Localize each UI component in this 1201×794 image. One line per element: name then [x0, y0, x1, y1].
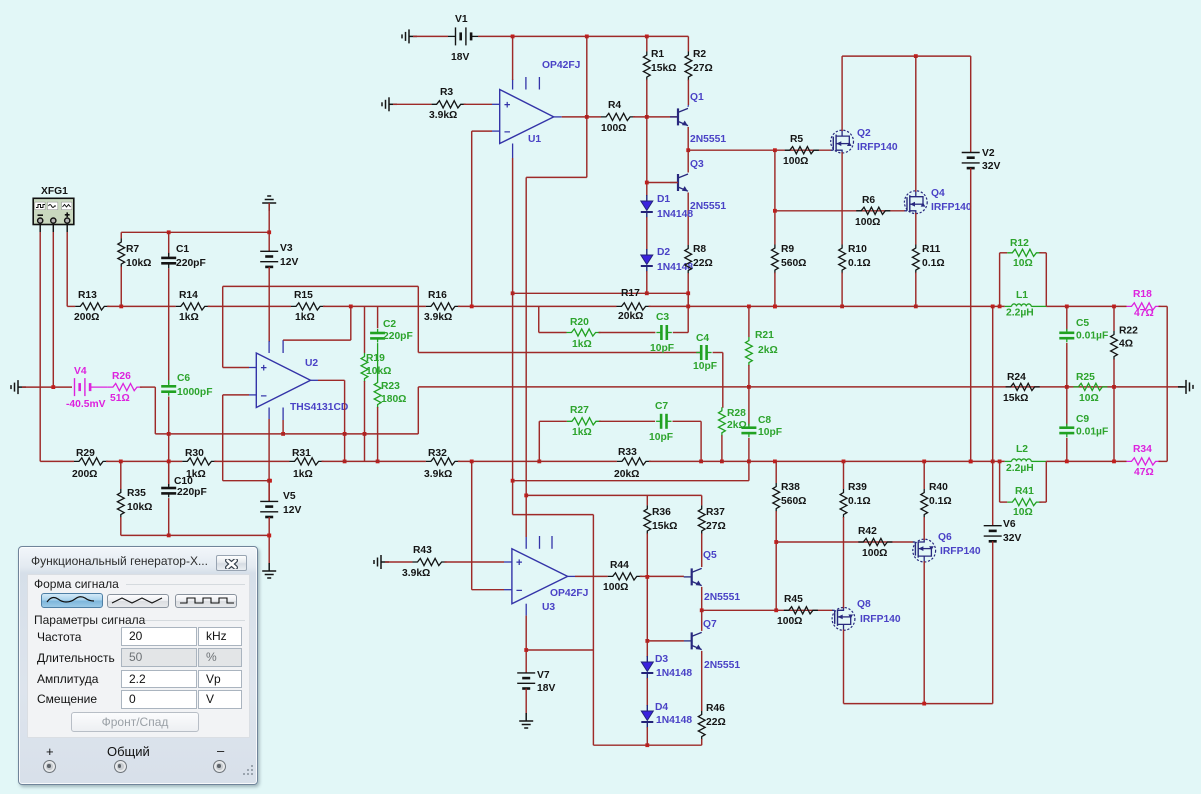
wire XFG plus stub	[66, 223, 68, 232]
resistor	[912, 245, 919, 274]
wire	[513, 292, 689, 294]
svg-text:3.9kΩ: 3.9kΩ	[424, 469, 452, 480]
junction	[537, 460, 541, 464]
transistor Q3 2N5551	[670, 174, 688, 191]
svg-text:V2: V2	[982, 148, 995, 159]
svg-text:2N5551: 2N5551	[690, 134, 726, 145]
svg-text:R13: R13	[78, 290, 97, 301]
battery V3 12V	[260, 251, 278, 267]
wire	[1045, 253, 1047, 307]
wire C4 down to R28	[722, 353, 724, 408]
svg-text:1N4148: 1N4148	[657, 209, 693, 220]
resistor	[685, 52, 692, 81]
battery V1 18V	[456, 27, 472, 45]
svg-text:D2: D2	[657, 247, 670, 258]
svg-text:12V: 12V	[280, 257, 298, 268]
svg-text:1kΩ: 1kΩ	[295, 312, 315, 323]
wire branch down to R9	[774, 150, 776, 244]
wire	[1039, 252, 1046, 254]
wire R19 bottom	[364, 381, 366, 461]
wire	[471, 35, 478, 37]
svg-text:R22: R22	[1119, 326, 1138, 337]
svg-text:IRFP140: IRFP140	[931, 202, 972, 213]
resistor R33 20k	[617, 458, 651, 465]
svg-text:OP42FJ: OP42FJ	[542, 60, 581, 71]
wire	[1159, 460, 1168, 462]
wire gnd to V3	[268, 203, 270, 251]
resistor	[117, 489, 124, 518]
svg-text:100Ω: 100Ω	[862, 548, 887, 559]
junction	[167, 432, 171, 436]
junction	[998, 305, 1002, 309]
junction R35	[119, 460, 123, 464]
svg-text:R18: R18	[1133, 289, 1152, 300]
wire	[168, 461, 170, 486]
wire	[923, 461, 925, 489]
svg-text:10pF: 10pF	[693, 361, 717, 372]
wire XFG minus down	[39, 232, 41, 461]
wire	[1031, 460, 1046, 462]
svg-text:2kΩ: 2kΩ	[758, 345, 778, 356]
wire U2 - input	[223, 394, 249, 396]
resistor	[1006, 383, 1040, 390]
svg-text:IRFP140: IRFP140	[857, 142, 898, 153]
resistor	[746, 337, 753, 366]
wire R22 bottom	[1113, 359, 1115, 387]
svg-text:0.1Ω: 0.1Ω	[929, 496, 952, 507]
svg-text:V4: V4	[74, 366, 87, 377]
ground below V7	[519, 713, 533, 728]
wire U2 pin2 up	[350, 306, 352, 340]
wire	[168, 232, 170, 256]
svg-text:U2: U2	[305, 358, 318, 369]
svg-text:-40.5mV: -40.5mV	[66, 399, 106, 410]
svg-text:XFG1: XFG1	[41, 186, 68, 197]
wire	[646, 495, 648, 505]
junction push-pull node lower	[700, 608, 704, 612]
wire U3 V+ pin top	[525, 495, 527, 537]
svg-text:1kΩ: 1kΩ	[293, 469, 313, 480]
svg-text:0.1Ω: 0.1Ω	[848, 258, 871, 269]
wire XFG common stub	[52, 223, 54, 232]
svg-text:R16: R16	[428, 290, 447, 301]
wire V3 to U2 V+	[268, 267, 270, 342]
resize grip	[243, 763, 254, 781]
wire U3 - input	[472, 589, 504, 591]
junction	[511, 479, 515, 483]
resistor R32 3.9k	[426, 458, 460, 465]
ground above V3	[262, 196, 276, 211]
svg-text:10kΩ: 10kΩ	[126, 258, 151, 269]
wire D2 to -rail line	[646, 271, 648, 293]
dialog title bar	[31, 554, 208, 568]
wire	[208, 305, 291, 307]
junction	[922, 460, 926, 464]
wire	[999, 461, 1001, 502]
svg-text:Q2: Q2	[857, 128, 871, 139]
instrument XFG1 function generator icon	[33, 198, 74, 224]
svg-text:OP42FJ: OP42FJ	[550, 588, 589, 599]
svg-text:2.2µH: 2.2µH	[1006, 463, 1034, 474]
junction	[167, 230, 171, 234]
junction C10	[167, 460, 171, 464]
wire U1 feedback vertical	[471, 131, 473, 306]
diode D3 1N4148	[641, 656, 653, 679]
wire long V- vertical	[512, 158, 514, 515]
resistor	[840, 489, 847, 518]
junction U1 feedback	[470, 305, 474, 309]
wire	[120, 461, 122, 489]
wire	[702, 609, 833, 611]
svg-text:3.9kΩ: 3.9kΩ	[424, 312, 452, 323]
wire	[842, 55, 971, 57]
junction R22 top	[1112, 305, 1116, 309]
wire	[970, 56, 972, 152]
wire Q1 emitter down	[687, 127, 689, 150]
dialog body panel	[27, 574, 250, 738]
junction	[363, 432, 367, 436]
op-amp U2 THS4131CD	[249, 340, 318, 420]
field row amplitude	[37, 672, 98, 686]
svg-text:20kΩ: 20kΩ	[618, 311, 643, 322]
junction V7 top	[524, 648, 528, 652]
svg-text:D1: D1	[657, 194, 670, 205]
op-amp U1 OP42FJ	[492, 77, 562, 158]
wire	[214, 460, 289, 462]
svg-text:R38: R38	[781, 482, 800, 493]
junction	[991, 460, 995, 464]
svg-text:Q5: Q5	[703, 550, 717, 561]
wire Q3 base	[647, 182, 678, 184]
capacitor C4 10pF	[696, 345, 711, 360]
svg-text:+: +	[516, 557, 522, 569]
svg-text:V7: V7	[537, 670, 550, 681]
mosfet Q8 IRFP140	[832, 608, 855, 631]
diode D2 1N4148	[641, 249, 653, 272]
wire XFG common down	[52, 232, 54, 387]
junction	[267, 479, 271, 483]
svg-text:100Ω: 100Ω	[601, 123, 626, 134]
svg-text:V6: V6	[1003, 519, 1016, 530]
svg-text:R2: R2	[693, 49, 706, 60]
svg-text:Q8: Q8	[857, 599, 871, 610]
terminal minus label	[217, 743, 224, 758]
wire line A to L1	[649, 305, 1005, 307]
svg-text:10Ω: 10Ω	[1079, 393, 1099, 404]
svg-text:15kΩ: 15kΩ	[651, 63, 676, 74]
ground right	[1178, 380, 1193, 394]
resistor	[773, 483, 780, 512]
wire U1 out to R4	[562, 116, 601, 118]
svg-text:R29: R29	[76, 448, 95, 459]
svg-text:C8: C8	[758, 415, 771, 426]
wire	[915, 213, 917, 245]
svg-text:15kΩ: 15kΩ	[652, 521, 677, 532]
junction	[645, 639, 649, 643]
wire	[377, 306, 379, 328]
wire	[323, 305, 426, 307]
junction	[720, 460, 724, 464]
wire	[713, 352, 723, 354]
resistor	[719, 407, 726, 436]
svg-text:C7: C7	[655, 401, 668, 412]
svg-text:R42: R42	[858, 526, 877, 537]
svg-text:R23: R23	[381, 381, 400, 392]
mosfet Q6 IRFP140	[913, 539, 936, 562]
resistor	[921, 489, 928, 518]
resistor R26 51	[108, 384, 142, 391]
svg-text:IRFP140: IRFP140	[860, 614, 901, 625]
svg-text:15kΩ: 15kΩ	[1003, 393, 1028, 404]
svg-text:R6: R6	[862, 195, 875, 206]
wire	[593, 744, 701, 746]
svg-text:R43: R43	[413, 545, 432, 556]
svg-text:C4: C4	[696, 333, 709, 344]
svg-text:R3: R3	[440, 87, 453, 98]
wire V6 bottom	[992, 541, 994, 703]
wire U1 V+ pin	[512, 36, 514, 80]
resistor R42 100	[858, 538, 892, 545]
wire R22 node down	[1113, 387, 1115, 462]
wire R39 to Q8 source	[843, 517, 845, 608]
svg-text:200Ω: 200Ω	[74, 312, 99, 323]
wire	[458, 460, 617, 462]
junction to R9/R6 branch	[773, 148, 777, 152]
svg-text:R11: R11	[922, 244, 941, 255]
svg-text:R20: R20	[570, 317, 589, 328]
junction U3 feedback	[470, 460, 474, 464]
wire	[539, 420, 567, 422]
wire bias chain down	[646, 577, 648, 657]
wire	[844, 703, 993, 705]
resistor R31 1k	[290, 458, 324, 465]
ground at R43	[374, 555, 389, 569]
svg-text:100Ω: 100Ω	[603, 582, 628, 593]
transistor Q1 2N5551	[670, 108, 688, 125]
junction	[281, 432, 285, 436]
junction R36/D3 chain	[645, 575, 649, 579]
junction	[645, 291, 649, 295]
resistor R43 3.9k	[413, 558, 447, 565]
wire V7 to ground	[525, 689, 527, 715]
svg-text:Q3: Q3	[690, 159, 704, 170]
svg-text:4Ω: 4Ω	[1119, 339, 1133, 350]
wire box elbow down	[417, 286, 419, 352]
svg-text:2N5551: 2N5551	[704, 592, 740, 603]
resistor R17 20k	[617, 303, 651, 310]
svg-text:0.1Ω: 0.1Ω	[848, 496, 871, 507]
wire R26 corner down	[154, 387, 156, 434]
wire	[322, 460, 426, 462]
resistor R29 200	[74, 458, 108, 465]
svg-text:22Ω: 22Ω	[693, 258, 713, 269]
svg-text:560Ω: 560Ω	[781, 496, 806, 507]
wire	[1159, 305, 1168, 307]
wire U3 Vee down to V7	[525, 616, 527, 673]
wire	[915, 56, 917, 192]
op-amp U3 OP42FJ	[504, 536, 575, 616]
svg-text:+: +	[504, 99, 510, 111]
wire	[701, 495, 703, 505]
capacitor C3 10pF	[656, 325, 671, 340]
svg-text:1kΩ: 1kΩ	[572, 427, 592, 438]
junction	[922, 702, 926, 706]
dialog window: function generator XFG1	[18, 546, 258, 785]
svg-text:1N4148: 1N4148	[656, 715, 692, 726]
svg-text:R7: R7	[126, 244, 139, 255]
junction	[773, 305, 777, 309]
wire elbow up	[417, 387, 419, 434]
svg-text:47Ω: 47Ω	[1134, 308, 1154, 319]
svg-text:R41: R41	[1015, 486, 1034, 497]
junction	[1065, 460, 1069, 464]
wire	[448, 35, 456, 37]
svg-text:R5: R5	[790, 134, 803, 145]
svg-text:18V: 18V	[451, 52, 469, 63]
svg-text:2N5551: 2N5551	[690, 201, 726, 212]
wire C3 corner up	[687, 306, 689, 332]
wire R3 to U1+	[464, 103, 492, 105]
wire	[268, 481, 270, 502]
junction	[699, 460, 703, 464]
junction	[268, 479, 272, 483]
wire	[223, 480, 270, 482]
wire corner C7 right	[700, 421, 702, 461]
svg-text:C10: C10	[174, 476, 193, 487]
junction	[842, 460, 846, 464]
button front/fall (disabled)	[71, 712, 199, 732]
wire R46 bottom	[701, 739, 703, 745]
mosfet Q4 IRFP140	[904, 191, 927, 214]
junction	[51, 385, 55, 389]
svg-text:47Ω: 47Ω	[1134, 467, 1154, 478]
svg-text:R27: R27	[570, 405, 589, 416]
wire	[67, 305, 75, 307]
field row offset	[37, 692, 97, 706]
svg-text:R37: R37	[706, 507, 725, 518]
junction	[774, 608, 778, 612]
junction U3 V+ line	[524, 494, 528, 498]
wire R36 bottom	[646, 533, 648, 577]
wire U2 Vee to V5	[268, 419, 270, 501]
junction R6 tap	[773, 209, 777, 213]
svg-text:10Ω: 10Ω	[1013, 258, 1033, 269]
svg-text:R8: R8	[693, 244, 706, 255]
resistor	[685, 245, 692, 274]
svg-text:51Ω: 51Ω	[110, 393, 130, 404]
wire	[1066, 306, 1068, 330]
svg-text:V3: V3	[280, 243, 293, 254]
wire	[748, 306, 750, 337]
wire Q7 collector up	[701, 610, 703, 631]
wire	[673, 420, 702, 422]
wire U2 + input	[223, 367, 249, 369]
wire	[1066, 387, 1068, 426]
junction	[773, 460, 777, 464]
wire down to bottom rail	[592, 515, 594, 746]
resistor	[839, 245, 846, 274]
svg-text:L2: L2	[1016, 444, 1028, 455]
junction	[343, 460, 347, 464]
wire	[223, 285, 419, 287]
svg-text:R9: R9	[781, 244, 794, 255]
wire feed elbow	[526, 176, 587, 178]
junction	[747, 385, 751, 389]
svg-text:27Ω: 27Ω	[693, 63, 713, 74]
wire	[992, 461, 994, 525]
svg-text:R46: R46	[706, 703, 725, 714]
svg-text:32V: 32V	[982, 161, 1000, 172]
wire D3 to D4	[646, 678, 648, 706]
svg-text:2.2µH: 2.2µH	[1006, 308, 1034, 319]
junction	[969, 460, 973, 464]
ground at R3	[382, 97, 397, 111]
resistor	[698, 711, 705, 740]
wire C5 bottom	[1066, 343, 1068, 387]
svg-text:1kΩ: 1kΩ	[572, 339, 592, 350]
wire U2 output	[318, 379, 345, 381]
junction	[840, 305, 844, 309]
junction	[645, 743, 649, 747]
wire C6 to C10	[168, 434, 170, 485]
wire R8 node link	[687, 293, 689, 306]
junction	[267, 534, 271, 538]
svg-text:C3: C3	[656, 312, 669, 323]
svg-text:220pF: 220pF	[176, 258, 206, 269]
svg-text:R39: R39	[848, 482, 867, 493]
wire gnd to V4	[22, 386, 72, 388]
junction R21 top	[747, 305, 751, 309]
svg-text:10pF: 10pF	[650, 343, 674, 354]
resistor	[374, 379, 381, 408]
svg-text:100Ω: 100Ω	[777, 616, 802, 627]
wire Q3 collector up	[687, 150, 689, 172]
wire corner C7 left	[538, 421, 540, 461]
svg-text:V1: V1	[455, 14, 468, 25]
svg-text:220pF: 220pF	[383, 331, 413, 342]
wire	[1005, 305, 1012, 307]
wire U2 pin5 down	[282, 420, 284, 434]
junction	[998, 460, 1002, 464]
junction	[686, 291, 690, 295]
wire	[40, 460, 74, 462]
wire	[673, 332, 688, 334]
svg-text:10kΩ: 10kΩ	[127, 502, 152, 513]
wire	[1039, 501, 1046, 503]
svg-text:10Ω: 10Ω	[1013, 507, 1033, 518]
battery V4 -40.5mV	[75, 378, 91, 396]
wire	[458, 305, 617, 307]
wire R44 to Q5 base	[640, 575, 684, 577]
wire Q7 base	[647, 640, 684, 642]
wire V+ feed down	[586, 36, 588, 177]
wire R21 bottom	[748, 365, 750, 387]
junction	[376, 460, 380, 464]
svg-text:10pF: 10pF	[758, 427, 782, 438]
wire	[1000, 252, 1008, 254]
svg-text:R40: R40	[929, 482, 948, 493]
wire V5 to ground	[268, 517, 270, 564]
terminal plus label	[46, 744, 54, 759]
junction	[267, 230, 271, 234]
wire to L2	[649, 460, 1005, 462]
svg-text:R14: R14	[179, 290, 198, 301]
svg-text:IRFP140: IRFP140	[940, 546, 981, 557]
wire R18-R34 right vertical	[1166, 306, 1168, 461]
svg-text:20kΩ: 20kΩ	[614, 469, 639, 480]
resistor	[772, 245, 779, 274]
svg-text:0.1Ω: 0.1Ω	[922, 258, 945, 269]
